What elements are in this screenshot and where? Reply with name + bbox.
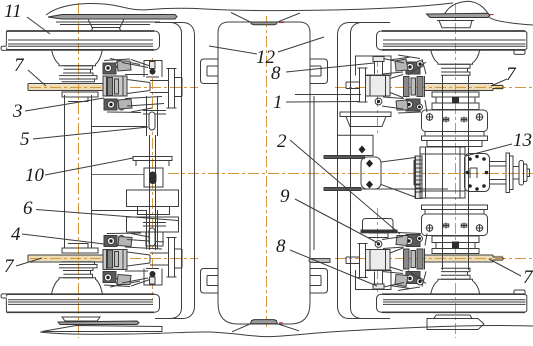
- leader 9: [295, 199, 378, 243]
- bolster center opening rounded rect: [218, 22, 310, 324]
- left axle cylinder: [65, 95, 92, 248]
- bolts top block: [426, 113, 483, 122]
- clip bottom-right on bolster edge: [310, 269, 328, 294]
- clip top-left on bolster edge: [201, 59, 219, 84]
- svg-text:7: 7: [506, 64, 517, 85]
- rubber stop bar bottom-right (gray): [309, 259, 330, 263]
- bolster top notch plate: [250, 22, 277, 25]
- svg-text:7: 7: [523, 267, 533, 288]
- svg-text:2: 2: [277, 131, 287, 152]
- bottom lifeguard wedge left: [42, 326, 162, 332]
- unit top-right: shaft, coupling, flange: [346, 55, 503, 113]
- damper bolt housing: [144, 61, 162, 78]
- lever top T-bar: [133, 157, 172, 167]
- top right dome base lens (filled): [427, 13, 490, 17]
- leader 5: [33, 127, 148, 139]
- leader 8 bottom: [290, 250, 377, 286]
- svg-text:4: 4: [11, 224, 21, 245]
- hub bolt bottom: [452, 242, 459, 249]
- gearbox bottom block: [422, 205, 488, 236]
- leader 2: [290, 140, 400, 234]
- centerline right axle vertical: [455, 3, 457, 338]
- wheel top-left band: [1, 31, 160, 50]
- svg-text:7: 7: [14, 55, 25, 76]
- centerline left lever unit: [152, 58, 154, 300]
- axle sleeve block: [366, 75, 391, 96]
- top brake shoe left trapezoid: [88, 19, 124, 31]
- brake beam end lines at notch top: [231, 13, 300, 22]
- lever pin box: [144, 168, 163, 187]
- damper bottom-left vertical: [143, 210, 166, 250]
- coupling hub block: [103, 76, 127, 96]
- svg-text:6: 6: [23, 198, 33, 219]
- svg-text:1: 1: [273, 92, 283, 113]
- svg-text:5: 5: [20, 129, 30, 150]
- gearbox output shaft: [490, 153, 530, 193]
- bolster side wall line right: [313, 96, 315, 250]
- leader 1: [286, 101, 360, 104]
- brake pull rod left lower: [92, 210, 146, 212]
- heavy rod top: [324, 156, 365, 159]
- brake beam end lines at notch bottom: [232, 324, 299, 332]
- gearbox hub rings bottom: [432, 236, 479, 254]
- centerline right damper top: [377, 56, 379, 136]
- damper bolt housing: [356, 56, 392, 76]
- wheel bottom-right hub bell: [431, 279, 480, 293]
- red dot top right: [490, 14, 494, 16]
- cylinder to flange: [150, 81, 169, 93]
- flange plate: [358, 68, 368, 102]
- motor mount top box: [324, 135, 373, 158]
- brake pull rod left upper: [92, 126, 146, 128]
- svg-text:8: 8: [276, 236, 286, 257]
- unit bottom-right (mirror): [346, 233, 503, 291]
- gearbox top block: [422, 110, 488, 141]
- wheel bottom-left hub bell: [52, 278, 103, 294]
- leader 12 left: [209, 46, 257, 54]
- gearbox input flange striped: [416, 156, 423, 199]
- centerline top-left shaft: [30, 87, 198, 89]
- leader 11: [27, 17, 50, 34]
- centerline transverse: [168, 173, 533, 175]
- centerline bottom-left shaft: [30, 258, 198, 260]
- svg-text:13: 13: [513, 130, 532, 151]
- bottom brake shoe right wedge: [427, 315, 484, 330]
- coupling cluster lower: [104, 97, 164, 113]
- shaft behind flange: [346, 82, 360, 89]
- leader 7 bottom-left: [16, 258, 42, 266]
- pivot pin circle: [375, 98, 382, 105]
- damper bolt above: [366, 57, 390, 76]
- svg-text:8: 8: [271, 63, 281, 84]
- wheel top-right band: [377, 31, 527, 54]
- wheel top-right hub bell: [431, 50, 480, 64]
- frame right side band: [338, 23, 391, 319]
- shaft behind flange: [175, 78, 183, 97]
- motor mount center bracket: [361, 157, 381, 189]
- svg-text:3: 3: [12, 101, 23, 122]
- svg-text:11: 11: [4, 1, 22, 22]
- right axle cylinder: [443, 75, 469, 270]
- hub bolt top: [452, 97, 459, 104]
- leader 3: [25, 98, 104, 111]
- leader 8 top: [286, 63, 374, 72]
- bottom rigging contour: [40, 326, 533, 337]
- centerline top-right shaft: [335, 87, 532, 89]
- top brake shoe left hanger lines: [56, 22, 160, 25]
- centerline bottom-right shaft: [335, 258, 532, 260]
- left lever unit: [127, 135, 179, 250]
- damper bolt above: [146, 62, 159, 78]
- svg-text:9: 9: [280, 186, 290, 207]
- gearbox hub rings top: [432, 92, 479, 110]
- lever block C: [127, 217, 179, 232]
- cone expanding: [390, 75, 403, 98]
- shaft bar: [28, 84, 127, 91]
- damper top-left vertical: [143, 96, 166, 136]
- red tick top center: [279, 22, 284, 24]
- wheel top-left hub bell: [52, 50, 103, 66]
- gearbox square flange with bolt circle: [465, 154, 490, 192]
- unit top-left: shaft, coupling, flange: [28, 59, 182, 113]
- top right dome: [443, 1, 490, 17]
- centerline right damper bottom: [377, 208, 379, 292]
- axle step bottom-left: [68, 244, 88, 249]
- bell cup top-right: [340, 112, 391, 127]
- cone shaft: [127, 80, 150, 94]
- top right dome pedestal: [437, 21, 474, 28]
- leader 12 right: [278, 37, 324, 52]
- bottom bracket box: [361, 219, 397, 238]
- bottom brake shoe left (filled): [58, 321, 139, 325]
- leader 4: [22, 234, 104, 244]
- top brake rigging contour: [46, 3, 453, 15]
- heavy rod bottom: [324, 188, 361, 191]
- bar fills (golden): [28, 84, 503, 261]
- unit bottom-left (mirror): [28, 233, 182, 287]
- leader 7 top-left: [28, 70, 46, 86]
- wheel bottom-right band: [377, 290, 527, 312]
- clip bottom-left on bolster edge: [201, 269, 219, 294]
- gearbox spacer plate: [427, 141, 482, 147]
- coupling middle slabs: [404, 77, 410, 97]
- lever rod vertical: [150, 135, 156, 250]
- lever block A: [127, 190, 179, 207]
- leader 10: [45, 158, 133, 175]
- wheel top-left hub rings: [59, 66, 97, 82]
- lever block B: [138, 207, 170, 215]
- gearbox assembly right: [414, 92, 530, 254]
- left axle collar top: [62, 92, 98, 97]
- gearbox main body: [414, 147, 465, 198]
- clip top-right on bolster edge: [310, 59, 328, 84]
- motor nose cone to gearbox: [381, 156, 415, 199]
- svg-text:7: 7: [4, 256, 15, 277]
- red dot bottom notch: [279, 322, 283, 324]
- wheel bottom-right hub rings: [441, 268, 470, 279]
- svg-text:10: 10: [25, 165, 45, 186]
- coupling cluster lower: [382, 97, 427, 113]
- brake pull rod right upper: [295, 94, 361, 96]
- bottom left trapezoid: [62, 317, 100, 321]
- contour tail right: [490, 18, 533, 26]
- leader 7 top-right: [491, 79, 507, 86]
- brake pull rod right lower: [361, 188, 448, 190]
- centerline left axle vertical: [78, 3, 80, 338]
- shaft bar: [424, 84, 503, 91]
- axle step top-left: [68, 97, 88, 102]
- leader 13: [466, 144, 512, 156]
- wheel bottom-left hub rings: [59, 262, 97, 278]
- coupling cluster upper: [103, 59, 150, 75]
- wheel top-right hub rings: [441, 64, 470, 75]
- leader 6: [36, 210, 178, 221]
- leader 7 bottom-right: [489, 259, 521, 276]
- wheel bottom-left band: [1, 294, 160, 312]
- flange plate: [167, 69, 177, 109]
- frame left side band: [155, 23, 195, 319]
- coupling cluster upper: [381, 55, 426, 75]
- bolster bottom notch plate: [250, 320, 277, 324]
- centerline bogie longitudinal vertical: [266, 16, 268, 330]
- brake pull rod left middle: [92, 174, 144, 176]
- lever bottom bracket: [146, 232, 163, 246]
- left axle collar bottom: [62, 248, 98, 253]
- top brake shoe left (filled): [48, 15, 177, 20]
